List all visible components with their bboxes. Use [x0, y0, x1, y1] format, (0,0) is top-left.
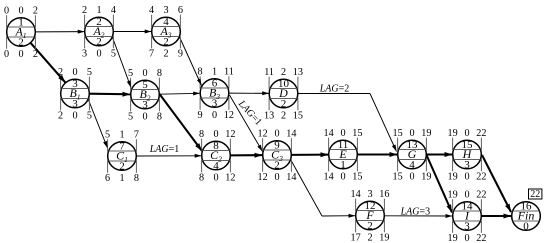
svg-text:E: E: [338, 147, 347, 161]
svg-text:0: 0: [213, 129, 218, 140]
svg-text:12: 12: [225, 129, 235, 140]
svg-text:2: 2: [367, 233, 372, 243]
svg-text:0: 0: [409, 128, 414, 139]
svg-text:11: 11: [224, 67, 234, 78]
svg-text:22: 22: [476, 233, 486, 243]
svg-text:0: 0: [340, 172, 345, 183]
svg-text:2: 2: [33, 6, 38, 17]
svg-text:3: 3: [82, 49, 87, 60]
svg-text:15: 15: [352, 172, 362, 183]
svg-text:5: 5: [128, 112, 133, 123]
svg-text:H: H: [462, 147, 473, 161]
svg-text:LAG=1: LAG=1: [149, 144, 180, 155]
svg-text:4: 4: [149, 5, 154, 16]
svg-text:19: 19: [379, 233, 389, 243]
svg-text:8: 8: [199, 173, 204, 184]
svg-text:G: G: [408, 147, 417, 161]
svg-text:8: 8: [199, 129, 204, 140]
svg-text:8: 8: [198, 67, 203, 78]
svg-text:0: 0: [18, 49, 23, 60]
svg-text:9: 9: [198, 110, 203, 121]
svg-text:0: 0: [274, 172, 279, 183]
svg-text:15: 15: [293, 111, 303, 122]
svg-text:0: 0: [464, 128, 469, 139]
svg-text:8: 8: [134, 173, 139, 184]
svg-text:0: 0: [18, 6, 23, 17]
svg-text:17: 17: [351, 233, 361, 243]
svg-text:14: 14: [324, 172, 334, 183]
svg-text:2: 2: [33, 49, 38, 60]
svg-text:1: 1: [96, 5, 101, 16]
svg-text:2: 2: [58, 67, 63, 78]
svg-text:0: 0: [72, 67, 77, 78]
svg-text:1: 1: [212, 67, 217, 78]
svg-text:14: 14: [286, 172, 296, 183]
svg-text:14: 14: [286, 129, 296, 140]
svg-text:0: 0: [142, 68, 147, 79]
svg-text:2: 2: [163, 49, 168, 60]
svg-text:22: 22: [476, 190, 486, 201]
svg-text:0: 0: [72, 111, 77, 122]
svg-text:0: 0: [464, 172, 469, 183]
svg-text:0: 0: [96, 49, 101, 60]
svg-text:12: 12: [225, 173, 235, 184]
svg-text:0: 0: [464, 233, 469, 243]
svg-text:F: F: [365, 208, 374, 222]
svg-text:Fin: Fin: [517, 209, 535, 223]
svg-text:19: 19: [448, 233, 458, 243]
svg-text:D: D: [278, 86, 288, 100]
svg-text:2: 2: [281, 111, 286, 122]
svg-text:8: 8: [157, 68, 162, 79]
svg-text:2: 2: [58, 111, 63, 122]
svg-text:19: 19: [448, 128, 458, 139]
svg-text:6: 6: [178, 5, 183, 16]
svg-text:0: 0: [340, 128, 345, 139]
svg-text:0: 0: [4, 6, 9, 17]
svg-text:13: 13: [264, 111, 274, 122]
svg-text:3: 3: [163, 5, 168, 16]
svg-text:7: 7: [134, 130, 139, 141]
svg-text:11: 11: [264, 67, 274, 78]
svg-text:15: 15: [393, 128, 403, 139]
svg-text:14: 14: [351, 189, 361, 200]
svg-text:9: 9: [178, 49, 183, 60]
svg-text:15: 15: [393, 172, 403, 183]
svg-text:5: 5: [87, 111, 92, 122]
svg-text:LAG=2: LAG=2: [319, 83, 350, 94]
svg-text:12: 12: [224, 110, 234, 121]
svg-text:22: 22: [530, 189, 540, 200]
svg-text:1: 1: [119, 130, 124, 141]
svg-text:7: 7: [149, 49, 154, 60]
svg-text:19: 19: [448, 172, 458, 183]
svg-text:0: 0: [213, 173, 218, 184]
svg-text:22: 22: [476, 172, 486, 183]
svg-text:0: 0: [212, 110, 217, 121]
svg-text:19: 19: [448, 190, 458, 201]
svg-text:0: 0: [409, 172, 414, 183]
svg-text:14: 14: [324, 128, 334, 139]
svg-text:0: 0: [4, 49, 9, 60]
svg-text:2: 2: [281, 67, 286, 78]
svg-text:5: 5: [111, 49, 116, 60]
svg-text:0: 0: [274, 129, 279, 140]
svg-text:0: 0: [464, 190, 469, 201]
svg-text:1: 1: [119, 173, 124, 184]
svg-text:19: 19: [421, 128, 431, 139]
svg-text:12: 12: [258, 172, 268, 183]
svg-text:22: 22: [476, 128, 486, 139]
svg-text:5: 5: [87, 67, 92, 78]
svg-text:13: 13: [293, 67, 303, 78]
svg-text:2: 2: [82, 5, 87, 16]
svg-text:5: 5: [128, 68, 133, 79]
svg-text:LAG=3: LAG=3: [400, 207, 431, 218]
svg-text:0: 0: [142, 112, 147, 123]
svg-text:5: 5: [105, 130, 110, 141]
svg-text:12: 12: [258, 129, 268, 140]
svg-text:16: 16: [379, 189, 389, 200]
svg-text:19: 19: [421, 172, 431, 183]
svg-text:8: 8: [157, 112, 162, 123]
svg-text:6: 6: [105, 173, 110, 184]
svg-text:4: 4: [111, 5, 116, 16]
svg-text:3: 3: [367, 189, 372, 200]
svg-text:15: 15: [352, 128, 362, 139]
